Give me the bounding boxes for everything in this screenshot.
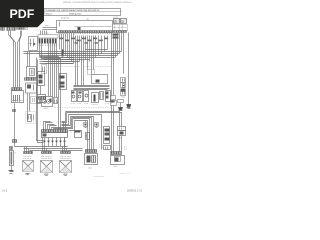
wire ticks below bus bar (44, 141, 66, 143)
svg-text:1120: 1120 (114, 166, 118, 168)
h-bus D six lines with right corners (66, 112, 122, 150)
svg-text:292: 292 (46, 33, 49, 35)
long horizontal collector lines (15, 146, 68, 148)
bus bar box (42, 133, 68, 138)
ECU internal tick (59, 22, 61, 27)
relay K2 box (12, 91, 24, 103)
component BB10 tall box (38, 72, 45, 86)
connector block below BB10 (38, 95, 46, 103)
interchange horizontal lines (40, 50, 122, 64)
svg-text:pdfslide.net/reader/full/169-c: pdfslide.net/reader/full/169-citroen-ber… (63, 1, 132, 4)
ECU wires descending left group (60, 34, 74, 64)
svg-text:xx: xx (15, 153, 17, 155)
title block table (41, 9, 121, 16)
tall stack component right of bundle (104, 127, 110, 144)
injector 1 connector rows (24, 152, 33, 154)
stub wires from badge lines down (41, 31, 47, 35)
ECU internal divider right (75, 26, 112, 28)
svg-text:Bildlegende:: Bildlegende: (70, 13, 82, 15)
connector hatch above relay K2 (12, 88, 22, 91)
connector block right (111, 96, 116, 100)
component row mid sensors (72, 91, 77, 102)
connector box C5a top right (114, 19, 120, 24)
wires from relay K1 down to box A (28, 52, 30, 121)
comb from bus into bus-bar strip (44, 122, 66, 130)
connector hatch band under box A (25, 78, 37, 81)
sensor connector low left (13, 140, 17, 143)
long verticals right continuing (112, 106, 114, 152)
thick dark wire marker (62, 50, 64, 57)
small box left of 0004 (37, 98, 41, 104)
svg-text:1 di 2: 1 di 2 (2, 190, 8, 192)
h-bus A pair left (24, 52, 86, 54)
PDF badge (0, 0, 44, 27)
X-box motor 1 (23, 161, 34, 172)
svg-text:1313: 1313 (121, 97, 125, 99)
ground far right (126, 104, 131, 107)
injector 1 wires (25, 147, 31, 152)
svg-text:PDF: PDF (10, 7, 35, 21)
small box under tall stack (104, 146, 111, 150)
throttle body box (85, 154, 98, 165)
throttle connector hatch (86, 150, 97, 153)
svg-text:pagina 1 di 2: pagina 1 di 2 (120, 173, 130, 175)
svg-text:0004: 0004 (44, 108, 48, 110)
wires below 1215 (120, 136, 122, 152)
ECU wires descending group B (76, 36, 108, 86)
component 0004 with two gauges (42, 97, 53, 107)
nested corner bus upper-left (44, 58, 74, 64)
svg-text:1225: 1225 (88, 168, 92, 170)
svg-text:Ty.1M: Ty.1M (113, 17, 118, 19)
ground symbol mid right (118, 107, 123, 110)
ground stubs under X boxes (26, 173, 30, 175)
left connector strip under badge (1, 28, 28, 31)
tick labels under connector blocks (39, 44, 58, 46)
X-box motor 3 (60, 161, 72, 173)
right small component 1215 (118, 127, 126, 131)
ECU 1320 outline (57, 21, 113, 33)
svg-text:2 3 6: 2 3 6 (99, 147, 103, 149)
connector box C5b top right (121, 19, 127, 24)
glow plug resistor left (10, 147, 13, 150)
small component next to battery (86, 133, 90, 140)
relay K1 pin ticks (29, 50, 38, 52)
h-bus C under big box (74, 86, 110, 90)
relay module pin strip (113, 31, 127, 33)
svg-text:Marca:: Marca: (46, 12, 53, 15)
small component box x42-46 y65-74 (42, 65, 47, 74)
X-box motor 2 (41, 161, 53, 173)
tiny labels under sensor row (72, 103, 76, 105)
small sensor under bus D left (84, 123, 88, 127)
small box on dashed top (88, 70, 95, 75)
wire below BB10 (40, 86, 42, 95)
svg-text:16/09/13, 17:3: 16/09/13, 17:3 (127, 190, 142, 192)
svg-text:pinguino: pinguino (61, 18, 70, 20)
relay module wire labels (113, 34, 119, 36)
wires from left strip descending (9, 31, 22, 88)
small box with ground right (118, 100, 124, 103)
wire label row under ECU (59, 38, 108, 44)
small faint box right of K2 (31, 97, 37, 104)
fuse stack right x121-127 (121, 78, 126, 83)
ECU connector strip (59, 31, 112, 33)
ground under resistor (9, 170, 14, 172)
ECU pin number row (59, 33, 112, 35)
dashed boundary box middle (55, 67, 112, 108)
small dark box on divider (78, 27, 81, 30)
component 0002 box A (27, 67, 37, 78)
wires from relay module top right descending (112, 33, 129, 105)
connector box under badge lines (38, 35, 58, 39)
right 1120 cluster (111, 152, 122, 155)
battery-like box lower mid (75, 131, 82, 138)
small sensor under bus D right (95, 123, 99, 127)
svg-text:condensatore: condensatore (94, 175, 105, 178)
fuse stack component x59-66 (60, 74, 67, 90)
left corners of bus D descending (62, 112, 75, 131)
wire from badge to ECU lower (43, 29, 57, 31)
inline connector on that wire (13, 110, 16, 112)
big box right mid (92, 75, 108, 84)
wires from connector blocks down (40, 44, 61, 130)
relay K1 box left (29, 37, 38, 51)
svg-text:roto: roto (45, 24, 49, 27)
dashed sub-box left (26, 112, 36, 124)
svg-text:SCHEMA 2 DE: INIEZIONE/ACCENSI: SCHEMA 2 DE: INIEZIONE/ACCENSIONE MG 1AP… (46, 9, 100, 12)
injector 2 wires (43, 138, 49, 152)
wire from K2 down to sensor (14, 104, 16, 140)
wires below bus bar (45, 138, 65, 147)
component 0002 box B (26, 83, 37, 93)
small box right of 0004 (54, 98, 58, 104)
wire from badge to ECU upper (43, 27, 57, 29)
injector 3 wires (63, 138, 69, 152)
bus bar hatch strip (42, 130, 68, 133)
svg-text:4 2: 4 2 (124, 149, 127, 151)
left pair turning right at bottom (37, 58, 44, 141)
connector hatch blocks row (39, 39, 57, 44)
relay module grid top right (113, 25, 128, 31)
